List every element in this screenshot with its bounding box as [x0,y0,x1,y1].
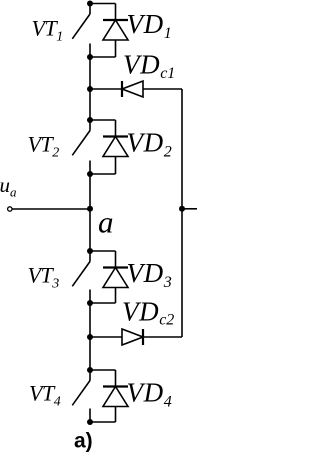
wire cell2 top [90,119,116,121]
node VT3 top [87,248,93,254]
svg-text:VT2: VT2 [28,132,60,161]
svg-text:VDc1: VDc1 [123,50,175,82]
wire bus VT2-VT3 [89,174,91,251]
node VT2 bottom [87,171,93,177]
node VT4 top [87,367,93,373]
svg-text:VD4: VD4 [127,377,172,410]
node neutral [179,206,185,212]
transistor VT2 [72,120,90,174]
svg-text:ua: ua [0,173,17,200]
svg-text:a): a) [74,429,93,452]
diode VD1 [103,4,128,58]
wire cell2 bottom [90,173,116,175]
transistor VT3 [72,251,90,303]
svg-text:VD3: VD3 [127,258,172,291]
node VT4 bottom [87,419,93,425]
svg-text:VT4: VT4 [29,380,61,409]
diode VD3 [103,251,128,303]
wire clamp bus right [181,89,183,337]
wire bus VT3-VT4 [89,303,91,370]
wire clamp1 left [90,88,122,90]
node VT2 top [87,117,93,123]
svg-text:VD1: VD1 [127,9,172,42]
node VT3 bottom [87,300,93,306]
diode VDc2 [122,329,143,345]
wire cell1 top [90,3,116,5]
diode VD2 [103,120,128,174]
terminal u_a [8,207,12,211]
wire cell1 bottom [90,56,116,58]
diode VD4 [103,370,128,422]
wire cell3 top [90,250,116,252]
svg-text:VT1: VT1 [32,16,64,45]
wire cell4 bottom [90,421,116,423]
svg-text:a: a [98,205,114,240]
wire input [12,208,90,210]
node clamp2 [87,334,93,340]
transistor VT1 [72,4,90,58]
svg-text:VDc2: VDc2 [122,296,174,328]
wire clamp2 left [90,336,122,338]
wire cell3 bottom [90,302,116,304]
node a junction [87,206,93,212]
svg-text:VD2: VD2 [127,128,172,161]
svg-text:VT3: VT3 [28,263,60,292]
wire cell4 top [90,369,116,371]
wire clamp2 right [143,336,182,338]
wire neutral stub [182,208,197,210]
transistor VT4 [72,370,90,422]
node top (VT1 collector) [87,1,93,7]
wire clamp1 right [143,88,182,90]
wire bus VT1-VT2 [89,57,91,120]
node clamp1 [87,86,93,92]
node VT1-VT2 junction [87,54,93,60]
diode VDc1 [122,81,143,97]
